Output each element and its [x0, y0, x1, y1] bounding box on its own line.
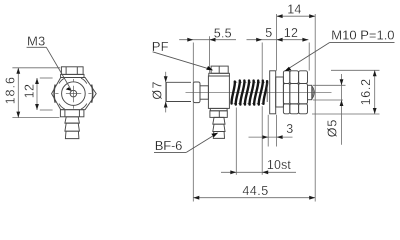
left view: hose barb: [65, 117, 80, 139]
hub spacer: [276, 77, 284, 107]
center lines: [55, 79, 91, 109]
bottom collar: [210, 111, 227, 118]
svg-text:PF: PF: [152, 39, 169, 54]
svg-text:10st: 10st: [267, 158, 291, 172]
dimension 44.5: [193, 197, 315, 199]
dimension Ø5: [313, 74, 346, 145]
stud tip dome: [308, 85, 315, 99]
compression spring: [232, 81, 268, 105]
left view: bottom collar: [60, 110, 84, 117]
neck: [200, 86, 208, 99]
centerline: [186, 92, 332, 94]
dimension 10st: [221, 106, 296, 175]
svg-text:12: 12: [23, 84, 37, 99]
side view hose barb: [213, 117, 225, 138]
bottom step: [210, 108, 227, 110]
svg-text:5: 5: [265, 26, 272, 40]
stem tube: [166, 82, 191, 101]
dimension 3: [249, 115, 293, 147]
PF top fitting: [209, 66, 230, 76]
dimension 14: [277, 14, 316, 202]
dimension 16.2: [312, 70, 380, 114]
svg-text:3: 3: [286, 122, 293, 136]
boss circle: [62, 82, 86, 106]
washer plate: [270, 71, 276, 114]
svg-text:BF-6: BF-6: [155, 138, 182, 153]
dimension 5: [247, 40, 277, 80]
svg-text:14: 14: [287, 3, 301, 17]
flange ring: [193, 82, 200, 103]
hex nut cells: [283, 71, 307, 114]
dimension 5.5: [179, 36, 236, 201]
left view: top fitting stub: [61, 67, 84, 78]
dimension 12 thread: [277, 40, 310, 71]
svg-text:Ø7: Ø7: [151, 81, 165, 100]
body block: [208, 76, 229, 108]
svg-text:12: 12: [284, 26, 298, 40]
dimension Ø7: [165, 72, 167, 113]
hex body front view: [52, 78, 97, 110]
dimension 18.6: [12, 68, 60, 118]
svg-text:M3: M3: [27, 33, 45, 48]
svg-text:M10 P=1.0: M10 P=1.0: [331, 28, 394, 43]
svg-text:18.6: 18.6: [3, 76, 17, 104]
svg-text:Ø5: Ø5: [325, 119, 339, 137]
svg-text:16.2: 16.2: [359, 78, 373, 105]
svg-text:5.5: 5.5: [214, 26, 232, 40]
dimension 12 across flats: [37, 78, 53, 110]
svg-text:44.5: 44.5: [242, 184, 268, 198]
M3 tapped hole: [70, 90, 77, 97]
